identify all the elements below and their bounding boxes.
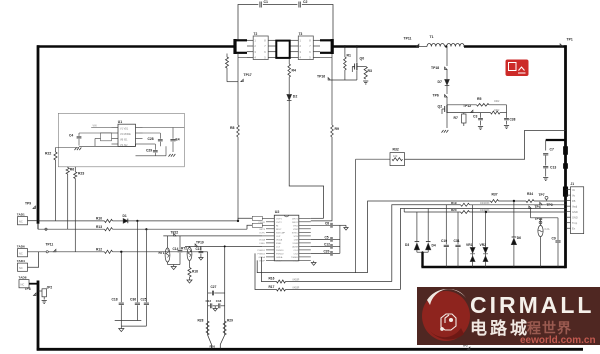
svg-text:TP18: TP18 [431,66,439,70]
right bus vertical [564,45,567,268]
resistor R8 [237,125,240,137]
svg-text:R19: R19 [451,201,457,205]
svg-text:TP3: TP3 [547,203,553,207]
svg-text:FSEL: FSEL [276,243,282,245]
wire R10 row [38,220,105,222]
svg-text:R26: R26 [210,345,216,349]
U1 subcircuit outline box [58,113,184,167]
wire R32 row [356,158,390,160]
svg-text:DRV1: DRV1 [292,219,299,221]
svg-text:TP11: TP11 [404,37,412,41]
diode D3 [416,212,418,242]
resistor R6b [67,166,69,169]
resistor R34 [526,200,534,203]
wire R32 to bus [405,130,566,159]
bus junction blob [563,147,567,155]
center ground [214,306,216,309]
resistor R1 [344,47,346,58]
svg-text:C14: C14 [173,247,179,251]
capacitor C10 [445,205,447,245]
wire [446,86,448,95]
resistor R20 [461,211,470,214]
svg-text:OLP: OLP [276,236,281,238]
svg-text:D2: D2 [293,95,298,99]
wire to U2 [311,137,332,221]
wire U2 pin1R up [311,217,324,219]
wire into U2 pin3 [247,225,252,229]
wire R5 row [447,104,477,106]
thermistor RT2 [189,246,191,247]
resistor R17 [277,288,286,291]
top bus right segment [464,45,567,47]
wire [545,156,547,166]
resistor R12 [105,250,113,253]
svg-text:GNDA: GNDA [276,256,283,259]
connector J1 [571,187,584,234]
diode D6 [513,201,515,237]
svg-text:TP6: TP6 [433,94,439,98]
wire [470,204,567,206]
wire C7 branch [545,140,547,151]
wire into U2 pin1 [238,218,252,221]
node bus junction [344,45,347,48]
svg-text:ADIM: ADIM [292,246,298,249]
svg-text:C13: C13 [550,166,556,170]
capacitor C27 [208,292,212,294]
node D6 tap [513,200,515,202]
wire R17 row [255,253,277,289]
thermistor RT1 [167,236,169,248]
svg-text:NC: NC [19,219,23,223]
D3 D4 join [417,251,428,253]
bus junction blob [563,164,567,169]
capacitor C13 [543,166,548,168]
svg-text:R1: R1 [347,54,352,58]
bottom frame bus [37,348,583,351]
svg-text:C12: C12 [324,243,330,247]
wire pin2R to C28 [143,132,161,134]
svg-text:C13: C13 [206,299,212,303]
bottom-right ground bus [421,266,565,268]
capacitor C20 [311,252,330,254]
svg-text:VDDA: VDDA [259,239,266,242]
svg-text:NC: NC [21,282,25,286]
wire [470,211,567,213]
svg-text:7AD4: 7AD4 [17,259,25,263]
svg-text:C28: C28 [148,137,154,141]
svg-text:GNDA: GNDA [259,256,266,259]
svg-text:R18: R18 [192,270,198,274]
svg-text:RDLT: RDLT [276,229,282,231]
red icon [506,60,529,77]
main top power bus left segment [37,45,237,47]
resistor JP2 [38,290,42,292]
transistor Q0 [356,47,358,63]
svg-text:程世界: 程世界 [527,320,572,336]
svg-text:C15: C15 [196,247,202,251]
wire R13 row [37,224,39,229]
capacitor E4 [172,128,174,139]
transformer right thick stubs [320,39,333,41]
resistor R10 [105,219,113,222]
svg-text:C2: C2 [303,0,308,4]
C18 rail [120,252,122,302]
wire W4 [403,209,405,213]
svg-text:DRV2: DRV2 [292,222,299,224]
zener VR1 [472,205,474,248]
svg-text:SSTCMP: SSTCMP [276,233,286,235]
capacitor C14 [179,236,181,250]
svg-text:C8: C8 [325,221,329,225]
capacitor C8 [311,224,330,226]
capacitor C15 [200,246,202,250]
thick branch to C7 [546,139,566,141]
top bus middle segment [333,45,419,47]
svg-text:TP7: TP7 [539,193,545,197]
svg-text:R23: R23 [78,172,84,176]
svg-text:D3: D3 [405,243,409,247]
svg-text:R34: R34 [527,192,533,196]
resistor R5 [477,104,490,107]
bead L1 [252,216,262,220]
wire R16 row [261,257,276,282]
transformer left thick stubs [237,39,248,41]
diode D1 [123,219,128,224]
svg-text:R22: R22 [45,152,51,156]
wire [113,251,208,253]
svg-text:FB: FB [572,199,576,203]
svg-text:D7: D7 [438,80,443,84]
svg-text:TIMER: TIMER [291,257,298,259]
svg-text:7AD6: 7AD6 [17,245,25,249]
svg-text:C20: C20 [324,250,330,254]
svg-text:R5: R5 [477,97,482,101]
svg-text:PWM1: PWM1 [258,222,265,224]
C25 rail [145,228,147,230]
svg-text:D6: D6 [517,236,521,240]
svg-text:TP19: TP19 [196,241,204,245]
svg-text:C31: C31 [454,239,460,243]
resistor R32 [390,153,405,166]
svg-text:TP13: TP13 [535,217,543,221]
zig [223,321,226,335]
svg-text:R32: R32 [393,148,399,152]
test point TP17 [241,79,243,81]
node [485,211,487,213]
svg-text:TP1: TP1 [567,38,573,42]
IC U2 body [274,215,299,261]
svg-text:TP22: TP22 [171,231,179,235]
svg-text:TP17: TP17 [244,73,252,77]
test point TP18 [445,67,447,69]
C1 C2 top loop wire [238,5,333,41]
svg-text:R3: R3 [368,69,373,73]
wire R6 row [447,112,491,114]
wire [128,220,238,222]
svg-text:R9: R9 [335,127,340,131]
capacitor C5 [311,238,330,240]
svg-text:T3: T3 [299,32,303,36]
wire W1 [368,201,491,273]
svg-text:VB IS1: VB IS1 [120,138,128,141]
svg-text:TP16: TP16 [317,75,325,79]
diode D2 [287,95,292,101]
svg-text:OVT2: OVT2 [276,222,282,224]
wire [534,200,567,202]
op-amp U1 [118,124,136,146]
svg-text:TP12: TP12 [463,104,471,108]
svg-text:FSEL: FSEL [260,243,266,245]
capacitor C18b [215,305,218,307]
cap join vertical [339,225,341,253]
ground under Q2 [442,130,444,133]
svg-text:E4: E4 [176,138,180,142]
svg-text:R10: R10 [96,217,102,221]
svg-text:Tmp: Tmp [572,221,578,225]
U2 bottom ground [313,261,315,263]
test point TP3 [540,202,542,204]
svg-text:R28: R28 [198,319,204,323]
test point TP16 [328,78,330,80]
svg-text:7AD1: 7AD1 [17,213,25,217]
rail joins [115,320,142,322]
capacitor C3 [480,113,482,118]
resistor R3 [352,66,355,68]
wire [286,289,401,291]
wire [545,169,547,177]
wire W2 [392,205,461,282]
svg-text:eeworld.com.cn: eeworld.com.cn [520,335,596,346]
capacitor C12 [311,245,330,247]
svg-text:VR1: VR1 [466,243,473,247]
svg-text:Vadj: Vadj [572,204,577,208]
svg-text:V1 VD1: V1 VD1 [120,127,129,130]
transformer T2 body [253,36,268,60]
svg-text:TP4: TP4 [535,205,541,209]
svg-text:GND: GND [572,215,578,219]
wire R12 row [48,251,104,253]
capacitor C28 [159,133,161,139]
test point TP19 wire [185,245,262,247]
svg-text:0.2A: 0.2A [545,228,550,231]
wire [446,70,448,80]
svg-text:JP2: JP2 [47,286,53,290]
TP13 lamp branch [530,209,532,218]
lamp FB1 [540,218,542,226]
svg-text:R12: R12 [96,247,102,251]
svg-text:R4: R4 [292,69,297,73]
svg-text:ENA: ENA [293,260,298,263]
svg-text:0402R: 0402R [293,288,300,290]
svg-text:VIN1: VIN1 [293,226,299,228]
svg-text:PGND1: PGND1 [276,250,284,252]
diode D4 [427,209,429,242]
wire [499,200,527,202]
bead L2 [252,223,262,227]
resistor R13 [105,228,113,231]
svg-text:STB: STB [294,236,299,238]
wire [500,112,507,114]
resistor R6 zig [491,111,501,114]
wire down from coil [446,47,448,67]
resistor R4 [288,64,291,77]
svg-text:C18: C18 [112,297,118,301]
svg-text:C38: C38 [510,118,516,122]
svg-text:U1: U1 [118,120,122,124]
capacitor C1 [259,2,261,8]
svg-text:C18: C18 [216,299,222,303]
svg-text:T2: T2 [254,32,258,36]
svg-text:R6: R6 [70,168,74,172]
svg-text:C4: C4 [69,134,73,138]
svg-text:C27: C27 [211,285,217,289]
wire pin1R to E4 [143,127,185,129]
wire [113,220,124,222]
svg-text:0402: 0402 [494,100,500,103]
wire center tap down [288,59,290,65]
svg-text:LCT: LCT [276,247,281,249]
watermark badge [417,287,600,346]
zener VR2 [485,212,487,248]
svg-text:C10: C10 [441,239,447,243]
svg-text:VIN2: VIN2 [293,229,299,231]
svg-text:VIN: VIN [93,124,97,127]
wire [113,228,248,230]
svg-text:U2: U2 [275,210,280,214]
capacitor C9 [557,218,559,240]
svg-text:OVP1: OVP1 [276,219,283,221]
capacitor C2 [298,2,300,8]
svg-text:TP9: TP9 [25,202,31,206]
svg-text:PGND1: PGND1 [257,250,265,252]
wire 7AD4 up-join [28,252,39,267]
svg-text:GND: GND [572,210,578,214]
svg-text:0402R: 0402R [293,280,300,282]
wire [489,104,507,106]
test point TP6 [445,95,447,97]
test point TP12 [471,110,473,112]
svg-text:TP11: TP11 [46,242,54,246]
inductor T1 [419,46,427,48]
capacitor C7 [543,153,548,155]
svg-text:OLPC: OLPC [259,232,265,234]
svg-text:BRT3: BRT3 [259,229,265,231]
RT1/C14 ground [168,264,181,266]
svg-text:TP8: TP8 [25,287,31,291]
center coupling link thick box [276,41,289,58]
left bus vertical lower [37,281,40,351]
resistor R23 [74,167,76,172]
svg-text:VR2: VR2 [480,243,487,247]
svg-text:V2 MODE: V2 MODE [120,133,131,136]
wire [286,281,392,283]
svg-text:J1: J1 [571,182,575,186]
svg-text:D1: D1 [123,214,127,218]
resistor R16 [277,280,286,283]
svg-text:C1: C1 [264,0,269,4]
C36 rail [136,220,138,222]
wire pin2 to C4 [79,132,112,134]
svg-text:0402: 0402 [494,109,500,112]
capacitor C38 [506,105,508,118]
test point TP22 wire [163,235,262,237]
diode D7 [445,80,450,86]
svg-text:R16: R16 [269,277,275,281]
svg-text:R20: R20 [451,208,457,212]
resistor R19 [461,203,470,206]
svg-text:VDDP: VDDP [276,261,283,263]
capacitor C12b [208,305,210,307]
small sub block [101,133,112,141]
svg-text:VDIM: VDIM [292,243,298,245]
wire [288,77,290,94]
svg-text:C9: C9 [552,237,556,241]
svg-text:T1: T1 [430,35,434,39]
svg-text:RT2: RT2 [181,247,187,251]
svg-text:R7: R7 [454,116,458,120]
right secondary vertical wire [331,54,333,125]
capacitor C29 [154,144,156,150]
svg-text:7AD8: 7AD8 [19,276,27,280]
svg-text:Q2: Q2 [438,105,443,109]
resistor R22 [55,148,57,153]
resistor R18 [189,261,191,268]
wire TP16 to Q0 [331,79,357,81]
svg-text:C7: C7 [550,148,554,152]
resistor R2 top-left of xfmr [226,54,228,58]
ground [120,326,122,328]
left secondary vertical wire [237,54,239,125]
svg-text:VDDP: VDDP [259,261,266,263]
test point TP4 [529,206,531,208]
vertical R32 left down [355,159,357,272]
thick riser to D3/D4 [421,252,423,267]
capacitor C4 [78,133,80,136]
svg-text:R37: R37 [492,193,498,197]
connector feed blob [563,187,568,197]
wire W3 [400,209,566,290]
resistor R37 [491,200,499,203]
svg-text:D4: D4 [432,244,436,248]
left bus vertical upper [37,45,40,224]
wire [446,97,448,104]
svg-text:VDDA: VDDA [276,239,283,242]
svg-text:R17: R17 [269,285,275,289]
svg-text:En: En [572,226,576,230]
svg-text:C29: C29 [146,149,152,153]
bottom wire inside box [79,145,136,147]
svg-text:C25: C25 [141,297,147,301]
svg-text:NC: NC [19,266,23,270]
svg-text:NC: NC [19,251,23,255]
svg-text:C3: C3 [473,115,477,119]
capacitor C31 [457,212,459,244]
wire [237,137,239,221]
svg-text:R13: R13 [96,225,102,229]
transistor Q2 [444,106,446,112]
svg-text:CIRMALL: CIRMALL [470,292,594,318]
svg-text:DIM: DIM [294,240,298,242]
svg-text:103: 103 [393,154,398,158]
wire pin1 left with net label [91,127,111,129]
test point TP1 [560,44,562,46]
ground R3 [363,80,368,82]
resistor R7 box [463,113,465,114]
svg-text:C5: C5 [325,236,329,240]
svg-text:PGND2: PGND2 [276,254,284,256]
svg-text:SYNC: SYNC [292,233,298,235]
svg-text:0402R33: 0402R33 [480,203,490,205]
